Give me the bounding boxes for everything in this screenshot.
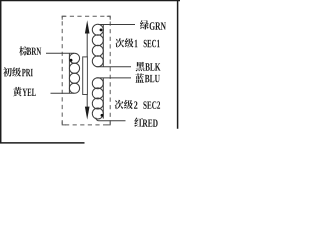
page background [0,0,180,147]
secondary winding S1 turn 2 [92,35,103,46]
adjustable core bar [83,57,88,95]
transformer shield dashed box [62,16,110,125]
page border top [0,0,180,2]
primary winding turn 1 [69,53,79,63]
label BLK (black) [136,62,145,71]
polarity dot S1 [100,28,103,31]
wire BLU lead [96,77,131,79]
primary winding turn 3 [69,73,79,83]
label GRN (green) [140,20,149,29]
label RED (red) [134,117,143,126]
label BRN (brown) [19,46,28,55]
polarity dot primary [70,59,73,62]
core arrow up head [85,20,90,33]
wire RED lead [96,118,126,121]
label SEC1 (secondary 1) [115,38,124,47]
polarity dot S2 [101,114,104,117]
wire BLK lead [96,66,131,68]
wire YEL lead [51,92,75,94]
label BLU (blue) [135,73,144,82]
secondary winding S2 turn 4 [92,108,103,119]
label SEC2 (secondary 2) [115,100,124,109]
secondary winding S1 spine [102,25,104,67]
dashed box corner ticks [62,16,110,125]
wire GRN lead [98,24,135,26]
primary winding turn 4 [69,83,79,93]
secondary winding S2 turn 1 [92,78,103,89]
page border left [0,0,2,144]
label PRI (primary) [3,67,12,76]
page border bottom [0,142,85,144]
core arrow down head [85,107,90,120]
secondary winding S1 turn 3 [92,45,103,56]
page border right [177,0,179,129]
primary winding turn 2 [69,63,79,73]
label YEL (yellow) [13,87,22,96]
secondary winding S2 turn 2 [92,88,103,99]
secondary winding S1 turn 1 [92,24,103,35]
primary winding spine [68,54,70,94]
secondary winding S2 spine [102,78,104,119]
core arrow down shaft [86,95,88,108]
secondary winding S1 turn 4 [92,56,103,67]
secondary winding S2 turn 3 [92,98,103,109]
wire BRN lead [46,52,74,54]
core arrow up shaft [86,33,88,57]
